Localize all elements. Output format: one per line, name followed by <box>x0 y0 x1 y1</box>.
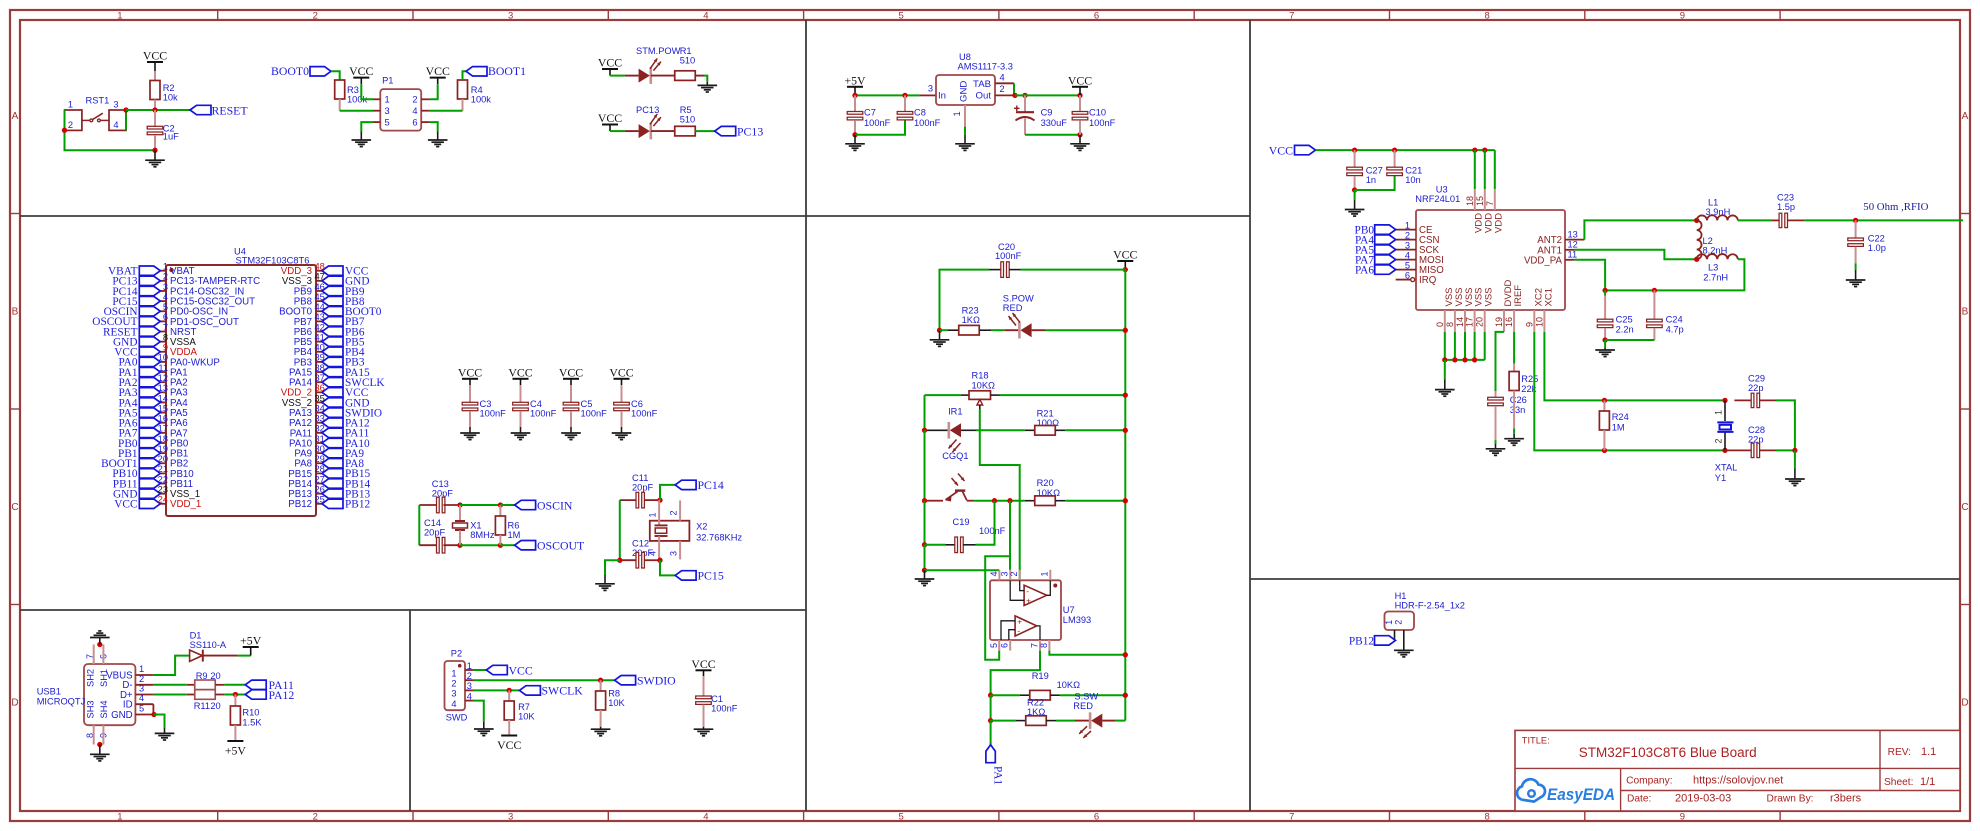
junction R24 top <box>1602 398 1607 403</box>
svg-text:7: 7 <box>1289 811 1294 822</box>
wire TAB to Out <box>1013 83 1015 94</box>
svg-text:r3bers: r3bers <box>1830 793 1862 805</box>
capacitor C27 1n <box>1354 150 1356 167</box>
svg-text:8: 8 <box>1445 322 1455 327</box>
svg-text:2: 2 <box>163 272 168 282</box>
svg-text:C: C <box>11 502 18 513</box>
wire R21 to VCC rail <box>1065 429 1125 431</box>
svg-text:8: 8 <box>163 332 168 342</box>
U4 pin 15 PA5 / net PA5 <box>160 412 166 414</box>
svg-text:20pF: 20pF <box>424 528 446 538</box>
junction VCC rail at R18 <box>1123 392 1128 397</box>
svg-text:R22: R22 <box>1027 697 1044 707</box>
P2 pin 4 <box>465 700 473 702</box>
svg-text:50 Ohm ,RFIO: 50 Ohm ,RFIO <box>1863 201 1928 213</box>
svg-text:13: 13 <box>158 383 168 393</box>
U7 pin 5 <box>998 640 1000 651</box>
net flag OSCOUT <box>515 541 536 550</box>
U4 pin 7 NRST / net RESET <box>160 331 166 333</box>
wire VCC to P1 pin1 <box>361 84 373 99</box>
wire IR1 column down <box>924 395 926 430</box>
junction X1 top <box>457 502 462 507</box>
svg-text:C29: C29 <box>1748 374 1765 384</box>
power flag VCC (C1) <box>696 669 712 671</box>
svg-text:VCC: VCC <box>497 738 521 752</box>
svg-text:B: B <box>12 307 19 318</box>
net flag PA11 <box>245 680 266 689</box>
svg-text:21: 21 <box>158 464 168 474</box>
svg-text:Drawn By:: Drawn By: <box>1767 794 1814 805</box>
U4 pin 17 PA7 / net PA7 <box>160 432 166 434</box>
svg-text:GND: GND <box>111 710 133 721</box>
svg-text:SWCLK: SWCLK <box>542 684 584 698</box>
svg-text:L3: L3 <box>1708 263 1718 273</box>
U7B input wires <box>1001 621 1015 640</box>
resistor R9 20 <box>187 684 195 686</box>
U3 pin 1 CE <box>1396 229 1416 231</box>
svg-text:8: 8 <box>1484 10 1489 21</box>
U4 pin 27 PB14 / net PB14 <box>316 483 322 485</box>
svg-text:2: 2 <box>668 510 678 515</box>
ground (C10) <box>1079 135 1081 144</box>
svg-text:OSCIN: OSCIN <box>537 498 573 512</box>
svg-text:RED: RED <box>1003 303 1023 313</box>
svg-text:3: 3 <box>385 106 390 116</box>
resistor R5 510 <box>675 126 696 136</box>
wire crystal left side <box>418 505 420 545</box>
H1 pin1 to PB12 flag <box>1394 630 1396 640</box>
wire X2 pin4 to PC15 flag <box>660 560 675 575</box>
svg-text:A: A <box>1962 111 1969 122</box>
ground (C1) <box>703 727 705 730</box>
wire VSS to ground <box>1444 360 1446 380</box>
U3 pin 4 MOSI <box>1396 259 1416 261</box>
USB1 pin 5 GND <box>135 714 153 716</box>
svg-text:X2: X2 <box>696 522 707 532</box>
wire R4 to P1 pin4 <box>430 110 463 112</box>
junction VCC rail at R20 <box>1123 498 1128 503</box>
U4 pin 42 PB6 / net PB6 <box>316 331 322 333</box>
ground (U3 VSS) <box>1444 380 1446 390</box>
wire P2 pin1 to VCC flag <box>473 669 486 671</box>
net flag PA12 <box>245 690 266 699</box>
junction RST1 pin2 <box>62 128 67 133</box>
power flag VCC (R7, below) <box>501 735 517 737</box>
junction C12 left <box>617 558 622 563</box>
svg-text:IRQ: IRQ <box>1419 275 1437 286</box>
wire VCC to LED2 <box>610 130 625 132</box>
U4 pin 16 PA6 / net PA6 <box>160 422 166 424</box>
junction R24 bottom <box>1602 448 1607 453</box>
svg-text:20: 20 <box>210 671 220 681</box>
wire S.POW to VCC rail <box>1045 329 1125 331</box>
MCU U4 STM32F103C8T6 <box>166 265 316 516</box>
svg-text:C12: C12 <box>632 538 649 548</box>
junction R22 left <box>988 718 993 723</box>
svg-text:10: 10 <box>158 353 168 363</box>
svg-text:1M: 1M <box>1612 423 1625 433</box>
svg-text:1: 1 <box>467 661 472 671</box>
svg-text:10KΩ: 10KΩ <box>1057 680 1081 690</box>
U4 pin 28 PB15 / net PB15 <box>316 472 322 474</box>
U7 pin 6 <box>1009 640 1011 651</box>
svg-text:4: 4 <box>163 292 168 302</box>
wire VSS bus <box>1445 359 1485 361</box>
ground (C25) <box>1604 348 1606 350</box>
wire +5V rail to U8 In <box>855 94 905 96</box>
svg-text:36: 36 <box>315 383 325 393</box>
svg-text:Out: Out <box>976 91 992 102</box>
svg-text:OSCOUT: OSCOUT <box>537 539 585 553</box>
ground (U8 GND) <box>964 135 966 144</box>
U4 pin 40 PB4 / net PB4 <box>316 351 322 353</box>
wire ID tie to GND pin <box>152 704 154 714</box>
svg-text:R6: R6 <box>508 521 520 531</box>
svg-text:PA12: PA12 <box>269 688 295 702</box>
U4 pin 2 PC13-TAMPER-RTC / net PC13 <box>160 280 166 282</box>
junction at C8 <box>902 93 907 98</box>
U4 pin 32 PA11 / net PA11 <box>316 432 322 434</box>
USB connector USB1 MICROQTJ <box>84 664 135 725</box>
capacitor C7 100nF <box>854 95 856 111</box>
svg-text:VDD: VDD <box>1494 213 1505 233</box>
U4 pin 30 PA9 / net PA9 <box>316 452 322 454</box>
svg-text:32.768KHz: 32.768KHz <box>696 533 742 543</box>
svg-text:C22: C22 <box>1868 233 1885 243</box>
svg-text:Y1: Y1 <box>1715 473 1726 483</box>
net flag BOOT1 <box>466 67 487 76</box>
U4 pin 9 VDDA / net VCC <box>160 351 166 353</box>
junction reset node at R2/C2 <box>152 107 157 112</box>
svg-text:C1: C1 <box>711 694 723 704</box>
svg-text:XTAL: XTAL <box>1715 463 1738 473</box>
svg-text:VCC: VCC <box>691 657 715 671</box>
capacitor C8 100nF <box>904 95 906 111</box>
U4 pin 36 VDD_2 / net VCC <box>316 391 322 393</box>
U4 pin 5 PD0-OSC_IN / net OSCIN <box>160 310 166 312</box>
svg-text:HDR-F-2.54_1x2: HDR-F-2.54_1x2 <box>1395 601 1465 611</box>
pin U8 GND to ground <box>964 105 966 127</box>
svg-text:SS110-A: SS110-A <box>190 640 227 650</box>
U7A output wire to pin1 <box>1047 580 1051 595</box>
capacitor C22 1.0p <box>1855 220 1857 238</box>
svg-text:VCC: VCC <box>598 56 622 70</box>
H1 pin2 to ground <box>1403 630 1405 650</box>
P2 pin 2 <box>465 679 473 681</box>
U4 pin 10 PA0-WKUP / net PA0 <box>160 361 166 363</box>
ground (C26) <box>1495 440 1497 444</box>
U4 pin 11 PA1 / net PA1 <box>160 371 166 373</box>
svg-text:P2: P2 <box>451 649 462 659</box>
svg-text:VCC: VCC <box>1068 73 1092 87</box>
svg-text:VDD_1: VDD_1 <box>170 499 201 510</box>
svg-text:2019-03-03: 2019-03-03 <box>1675 793 1731 805</box>
svg-text:13: 13 <box>1568 229 1578 239</box>
svg-text:15: 15 <box>158 403 168 413</box>
wire DVDD to C26 <box>1496 332 1505 391</box>
svg-text:19: 19 <box>1494 317 1504 327</box>
svg-text:35: 35 <box>315 393 325 403</box>
crystal X1 8MHz <box>459 505 461 521</box>
capacitor C3 100nF <box>469 385 471 402</box>
pin U8 Out <box>995 94 1015 96</box>
diode D1 SS110-A <box>190 650 203 661</box>
svg-text:2: 2 <box>1714 439 1724 444</box>
net flag OSCIN <box>515 500 536 509</box>
svg-text:10k: 10k <box>163 92 178 102</box>
ground (P1 pin5) <box>360 132 362 141</box>
svg-text:1: 1 <box>1405 220 1410 230</box>
svg-text:17: 17 <box>158 424 168 434</box>
ground (C4) <box>520 427 522 433</box>
USB1 pin 1 VBUS <box>135 674 153 676</box>
ground (reset) <box>154 150 156 160</box>
wire R22 to LED S.SW <box>1056 720 1075 722</box>
junction VDD pin18 <box>1472 147 1477 152</box>
svg-text:VCC: VCC <box>509 663 533 677</box>
U4 pin 29 PA8 / net PA8 <box>316 462 322 464</box>
ground (H1) <box>1394 649 1414 651</box>
junction crystal pin1 <box>1722 398 1727 403</box>
U3 bottom VSS pins <box>1444 310 1446 332</box>
svg-text:17: 17 <box>1465 317 1475 327</box>
LED PC13 <box>625 130 639 132</box>
svg-text:2: 2 <box>139 674 144 684</box>
U3 pin 13 ANT2 <box>1565 239 1584 241</box>
junction divider node top <box>1007 498 1012 503</box>
op-amp U7B <box>1015 616 1037 636</box>
svg-text:1: 1 <box>451 668 456 678</box>
U3 pin 5 MISO <box>1396 269 1416 271</box>
svg-text:100k: 100k <box>471 94 492 104</box>
LED STM.POW <box>625 75 639 77</box>
U4 pin 43 PB7 / net PB7 <box>316 320 322 322</box>
junction VSS <box>1452 357 1457 362</box>
svg-text:20pF: 20pF <box>632 483 654 493</box>
svg-text:11: 11 <box>158 363 168 373</box>
svg-text:R20: R20 <box>1037 478 1054 488</box>
junction C25 bottom <box>1602 337 1607 342</box>
svg-text:S.SW: S.SW <box>1074 691 1098 701</box>
ground (USB shell top, inverted) <box>99 638 101 645</box>
svg-text:VCC: VCC <box>143 49 167 63</box>
svg-text:7: 7 <box>1485 201 1495 206</box>
svg-text:46: 46 <box>315 282 325 292</box>
svg-text:9: 9 <box>1680 811 1685 822</box>
svg-text:510: 510 <box>680 115 696 125</box>
svg-text:2: 2 <box>1393 620 1403 625</box>
svg-text:R7: R7 <box>518 702 530 712</box>
junction L2/L3 <box>1694 257 1699 262</box>
U4 pin 14 PA4 / net PA4 <box>160 401 166 403</box>
svg-text:3: 3 <box>1000 571 1010 576</box>
svg-text:32: 32 <box>315 424 325 434</box>
wire C7-C8 bottom <box>855 120 905 135</box>
USB1 pin 4 ID <box>135 703 153 705</box>
wire L1 to C23 <box>1738 219 1771 221</box>
net flag RESET <box>190 105 211 114</box>
svg-text:25: 25 <box>315 495 325 505</box>
svg-text:2: 2 <box>451 679 456 689</box>
capacitor C2 1uF <box>154 110 156 126</box>
resistor R8 10K <box>600 680 602 691</box>
svg-text:4: 4 <box>1000 73 1005 83</box>
junction R7 top <box>507 688 512 693</box>
U4 pin 31 PA10 / net PA10 <box>316 442 322 444</box>
wire X2 top to PC14 flag <box>660 485 675 500</box>
svg-text:5: 5 <box>989 643 999 648</box>
U4 pin 21 PB10 / net PB10 <box>160 472 166 474</box>
svg-text:100nF: 100nF <box>1089 118 1116 128</box>
wire BOOT0 to R3 <box>331 71 340 80</box>
svg-text:C23: C23 <box>1777 192 1794 202</box>
svg-text:VCC: VCC <box>349 64 373 78</box>
svg-text:Date:: Date: <box>1627 794 1651 805</box>
svg-text:SH4: SH4 <box>99 700 109 718</box>
U4 pin 38 PA15 / net PA15 <box>316 371 322 373</box>
USB1 pin 2 D- <box>135 684 153 686</box>
crystal Y1 XTAL <box>1724 400 1726 421</box>
svg-text:C8: C8 <box>914 108 926 118</box>
U7 pin 7 <box>1039 640 1041 651</box>
svg-text:1: 1 <box>1040 571 1050 576</box>
U3 VDD pins 18 15 7 <box>1474 150 1476 189</box>
junction C22 <box>1853 218 1858 223</box>
svg-text:STM32F103C8T6 Blue Board: STM32F103C8T6 Blue Board <box>1579 745 1757 760</box>
svg-text:12: 12 <box>1568 240 1578 250</box>
svg-text:1: 1 <box>952 111 962 116</box>
svg-text:X1: X1 <box>470 521 481 531</box>
P2 pin 1 <box>465 669 473 671</box>
svg-text:510: 510 <box>680 56 696 66</box>
junction ground node <box>922 568 927 573</box>
U7 pin 3 <box>1009 570 1011 581</box>
svg-text:10n: 10n <box>1405 175 1421 185</box>
svg-text:SWDIO: SWDIO <box>637 674 676 688</box>
svg-text:1: 1 <box>385 95 390 105</box>
power flag VCC (reset pull-up) <box>147 61 163 63</box>
net flag PC15 <box>675 571 696 580</box>
ground (P2 pin4) <box>483 722 485 729</box>
svg-text:3: 3 <box>451 689 456 699</box>
svg-text:TAB: TAB <box>973 79 991 90</box>
net flag PC13 <box>715 126 736 135</box>
U3 pin 3 SCK <box>1396 249 1416 251</box>
U4 pin 46 PB9 / net PB9 <box>316 290 322 292</box>
U4 pin 1 VBAT / net VBAT <box>160 270 166 272</box>
svg-text:28: 28 <box>315 464 325 474</box>
svg-text:37: 37 <box>315 373 325 383</box>
svg-text:1.5K: 1.5K <box>242 717 262 727</box>
svg-text:29: 29 <box>315 454 325 464</box>
power flag +5V (USB) <box>243 646 259 648</box>
wire R9 to PA11 flag <box>224 684 245 686</box>
svg-text:2: 2 <box>313 811 318 822</box>
svg-text:-: - <box>1026 586 1029 596</box>
U7 internal marker dot <box>1053 584 1057 588</box>
junction R19 left <box>988 693 993 698</box>
svg-text:8: 8 <box>1039 643 1049 648</box>
svg-text:R1: R1 <box>680 46 692 56</box>
svg-text:100nF: 100nF <box>530 409 557 419</box>
svg-text:IR1: IR1 <box>948 406 962 416</box>
svg-text:1M: 1M <box>508 530 521 540</box>
svg-text:5: 5 <box>1405 260 1410 270</box>
svg-text:100nF: 100nF <box>864 118 891 128</box>
svg-text:PB12: PB12 <box>345 499 370 511</box>
svg-text:10K: 10K <box>608 698 625 708</box>
wire VCC to P1 pin2 <box>430 84 438 99</box>
svg-text:AMS1117-3.3: AMS1117-3.3 <box>958 61 1013 71</box>
wire ground rail under sensor <box>924 545 926 571</box>
svg-text:VCC: VCC <box>426 64 450 78</box>
svg-text:3: 3 <box>467 681 472 691</box>
U3 pin 10 XC1 <box>1543 310 1545 332</box>
svg-text:4: 4 <box>139 693 144 703</box>
svg-text:7: 7 <box>163 322 168 332</box>
U7 pin 1 <box>1049 570 1051 581</box>
wire R19 node down to R22 <box>990 695 992 720</box>
svg-text:4: 4 <box>451 699 456 709</box>
svg-text:In: In <box>938 91 946 102</box>
resistor R2 10k <box>154 71 156 81</box>
power flag VCC (sensor) <box>1117 260 1133 262</box>
svg-text:LM393: LM393 <box>1063 615 1091 625</box>
wire C11 left vertical <box>619 500 621 560</box>
U3 pin 11 VDD_PA <box>1565 259 1574 261</box>
wire C28 to right column <box>1776 449 1795 451</box>
svg-text:5: 5 <box>163 302 168 312</box>
junction at C10 top <box>1077 93 1082 98</box>
wire X1 top to OSCIN <box>460 504 500 506</box>
capacitor C5 100nF <box>570 385 572 402</box>
wire VDD_PA to C25 <box>1574 260 1605 291</box>
svg-text:A: A <box>12 111 19 122</box>
junction shell bottom <box>97 742 102 747</box>
junction VCC rail at pin8 <box>1123 652 1128 657</box>
svg-text:2.2n: 2.2n <box>1616 325 1634 335</box>
net flag PA1 <box>986 745 995 763</box>
svg-text:RESET: RESET <box>212 103 249 117</box>
wire Out to VCC/C10 <box>1015 94 1080 96</box>
svg-text:24: 24 <box>158 495 168 505</box>
wire PA1 stub <box>990 721 992 745</box>
svg-text:C21: C21 <box>1405 165 1422 175</box>
U4 pin 18 PB0 / net PB0 <box>160 442 166 444</box>
U4 pin 3 PC14-OSC32_IN / net PC14 <box>160 290 166 292</box>
U4 pin 20 PB2 / net BOOT1 <box>160 462 166 464</box>
svg-text:40: 40 <box>315 343 325 353</box>
svg-text:CGQ1: CGQ1 <box>942 451 968 461</box>
wire L3 to C24/C25 bottom branch <box>1605 259 1744 290</box>
svg-text:100nF: 100nF <box>979 526 1006 536</box>
svg-text:1: 1 <box>117 811 122 822</box>
svg-text:8: 8 <box>1484 811 1489 822</box>
pin U8 TAB <box>995 82 1014 84</box>
junction C19 left <box>922 542 927 547</box>
svg-text:B: B <box>1962 307 1969 318</box>
svg-text:3: 3 <box>113 100 118 110</box>
svg-text:6: 6 <box>163 312 168 322</box>
svg-text:C9: C9 <box>1041 108 1053 118</box>
svg-text:VCC: VCC <box>508 365 532 379</box>
svg-text:1.5p: 1.5p <box>1777 202 1795 212</box>
junction C2 bottom <box>152 148 157 153</box>
wire phototransistor column <box>924 430 926 500</box>
svg-text:4: 4 <box>703 811 708 822</box>
svg-text:0: 0 <box>1435 322 1445 327</box>
svg-text:330uF: 330uF <box>1041 118 1068 128</box>
